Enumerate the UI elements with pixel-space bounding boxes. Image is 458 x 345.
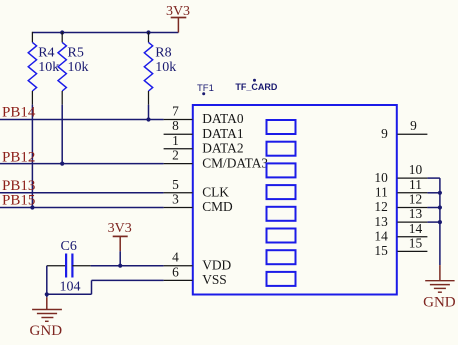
svg-text:104: 104 [60, 280, 81, 295]
svg-text:10k: 10k [155, 60, 176, 75]
svg-text:PB15: PB15 [2, 193, 35, 209]
svg-text:3: 3 [172, 192, 179, 207]
svg-text:10k: 10k [38, 60, 59, 75]
svg-text:GND: GND [423, 295, 456, 311]
svg-text:VDD: VDD [202, 257, 231, 272]
svg-text:5: 5 [172, 177, 179, 192]
svg-text:CM/DATA3: CM/DATA3 [202, 155, 268, 170]
svg-text:11: 11 [375, 185, 388, 200]
svg-text:12: 12 [409, 192, 422, 207]
svg-text:1: 1 [172, 133, 179, 148]
svg-text:13: 13 [409, 206, 423, 221]
svg-text:PB12: PB12 [2, 150, 35, 166]
svg-text:10k: 10k [68, 60, 89, 75]
svg-text:DATA1: DATA1 [202, 126, 243, 141]
svg-text:VSS: VSS [202, 272, 227, 287]
svg-text:DATA2: DATA2 [202, 141, 243, 156]
svg-text:CLK: CLK [202, 185, 229, 200]
svg-text:DATA0: DATA0 [202, 111, 244, 126]
svg-text:6: 6 [172, 264, 179, 279]
svg-text:7: 7 [172, 104, 179, 119]
svg-text:11: 11 [409, 177, 422, 192]
svg-text:8: 8 [172, 118, 179, 133]
svg-text:14: 14 [374, 229, 388, 244]
svg-text:9: 9 [381, 126, 388, 141]
svg-text:2: 2 [172, 148, 179, 163]
svg-text:C6: C6 [61, 239, 77, 254]
svg-text:15: 15 [374, 243, 388, 258]
svg-text:12: 12 [374, 199, 387, 214]
svg-text:PB14: PB14 [2, 104, 36, 120]
svg-text:4: 4 [172, 250, 179, 265]
svg-text:10: 10 [374, 170, 388, 185]
svg-text:10: 10 [409, 162, 423, 177]
svg-text:TF1: TF1 [197, 83, 214, 94]
svg-text:9: 9 [410, 118, 417, 133]
svg-text:R4: R4 [38, 45, 54, 60]
svg-text:14: 14 [409, 221, 423, 236]
svg-text:3V3: 3V3 [108, 221, 132, 236]
svg-text:13: 13 [374, 214, 388, 229]
svg-text:CMD: CMD [202, 199, 233, 214]
svg-text:TF_CARD: TF_CARD [235, 82, 277, 92]
svg-text:R8: R8 [155, 45, 171, 60]
svg-text:GND: GND [30, 323, 63, 339]
svg-text:R5: R5 [68, 45, 84, 60]
svg-text:15: 15 [409, 235, 423, 250]
